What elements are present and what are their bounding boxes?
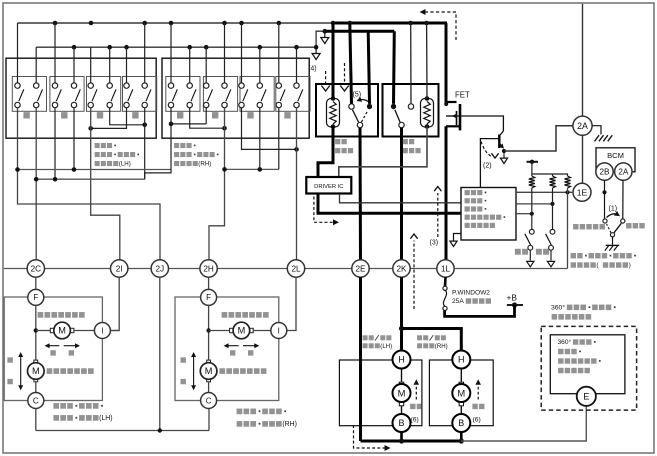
motor M2 RH up-down adjust — [200, 360, 217, 382]
label door lock link switch — [571, 253, 636, 269]
junction R2 — [550, 202, 554, 206]
connector F RH — [201, 289, 217, 305]
LH sub-switch box 左 — [87, 77, 121, 112]
svg-text:(LH): (LH) — [99, 415, 112, 422]
wire 2B to unlock contact — [604, 180, 606, 219]
label unlock — [573, 224, 605, 229]
junction RH up-L — [169, 122, 174, 127]
label up-down adjust motor RH — [219, 368, 266, 374]
wire bus to switch contact x=90.7 — [90, 47, 92, 83]
connector 2B BCM — [596, 163, 613, 180]
svg-text:B: B — [398, 418, 404, 428]
wire storage coil to DRIVER IC thick — [318, 127, 333, 178]
svg-text:M: M — [205, 366, 213, 376]
junction on bus1 x=426.6 — [424, 21, 429, 26]
return switch — [546, 188, 555, 267]
wire 2E down thick — [359, 277, 362, 441]
junction on bus2 x=259.8 — [258, 45, 263, 50]
door lock link switch — [603, 211, 625, 237]
LH sub-switch box 右 — [123, 77, 157, 112]
wire storage relay common to 2E thick — [359, 128, 363, 260]
svg-text:2B: 2B — [599, 167, 610, 176]
wire LH up-L output to node and 2J feed — [18, 108, 161, 260]
svg-text:(RH): (RH) — [435, 343, 448, 350]
junction on bus2 x=126.5 — [124, 45, 129, 50]
wire bus to switch contact x=55 — [54, 23, 56, 83]
RH sub-switch box 上 — [166, 77, 200, 112]
svg-text:BCM: BCM — [607, 151, 624, 160]
wire +B to fuse thick — [445, 305, 515, 316]
dashed continuation arrow bottom — [354, 425, 391, 451]
wire connector row — [4, 268, 568, 270]
switch label 上 — [177, 112, 183, 118]
mirror motor RH box — [175, 297, 279, 401]
svg-text:M: M — [457, 387, 465, 398]
wire M1 to I LH — [74, 330, 95, 332]
chassis ground at 2A — [592, 126, 612, 142]
wire fold motor rail thick — [361, 440, 462, 443]
wire M to B LH — [401, 406, 403, 414]
wire RH left-L to right-R — [242, 108, 297, 150]
wire bus to switch contact x=171 — [170, 23, 172, 83]
wire RH right-L output — [278, 108, 280, 170]
junction on mid-bus — [323, 29, 328, 34]
wire RH upL-downL tie — [171, 123, 206, 125]
resistor R2 — [550, 176, 556, 188]
switch contact pair x=259.8 — [257, 83, 266, 108]
switch contact pair x=189.7 — [187, 83, 196, 108]
svg-text:F: F — [206, 293, 211, 302]
label lock — [626, 223, 645, 228]
motor M2 LH up-down adjust — [28, 360, 45, 382]
junction on bus1 x=410.7 — [408, 21, 413, 26]
wire bus to switch contact x=74 — [73, 47, 75, 83]
switch contact pair x=55 — [52, 83, 61, 108]
switch label 下 — [212, 112, 218, 118]
wire 2K to H LH thick — [400, 277, 403, 351]
label 360 view monitor system — [551, 304, 616, 320]
svg-text:M: M — [238, 326, 246, 336]
connector H RH — [452, 351, 470, 369]
wire mid-bus corner to return relay NO contact thick — [392, 31, 396, 104]
wire line Ar — [225, 168, 279, 170]
svg-text:P.WINDOW2: P.WINDOW2 — [452, 290, 490, 297]
switch contact pair x=90.7 — [88, 83, 97, 108]
junction line Ar left-R — [258, 167, 263, 172]
connector E — [577, 387, 596, 406]
label up LH — [7, 357, 12, 362]
wire fold branch to H RH thick — [402, 329, 462, 351]
label return — [536, 249, 549, 255]
resistor R3 — [565, 176, 571, 188]
switch contact pair x=74 — [71, 83, 80, 108]
wire LH left-R to right-R — [110, 108, 145, 125]
DRIVER IC box — [306, 177, 351, 194]
wire bus2 thin — [36, 46, 316, 48]
label left-right adjust motor RH — [222, 312, 269, 318]
switch label 上 — [23, 112, 29, 118]
switch label 左 — [97, 112, 103, 118]
wire 2A BCM to lock contact — [622, 180, 624, 219]
wire bus to switch contact x=144.7 — [144, 23, 146, 83]
wire RH up-L/down-L net jog to line B — [145, 108, 171, 180]
wire RH down-R output through line Ar to 2H — [209, 108, 225, 260]
wire bus to switch contact x=189.7 — [189, 47, 191, 83]
wire module to R1 line — [516, 213, 532, 215]
label (3) — [430, 240, 439, 247]
wire bus to switch contact x=278.8 — [278, 23, 280, 83]
label up-down adjust motor LH — [47, 368, 94, 374]
wire RH down-L output — [205, 108, 207, 124]
junction on bus1 x=224.5 — [222, 21, 227, 26]
switch label 左 — [247, 112, 253, 118]
svg-text:(2): (2) — [483, 163, 492, 170]
wire M to B RH — [460, 406, 462, 414]
wire bus to switch contact x=241.5 — [241, 23, 243, 83]
junction on bus2 x=206.2 — [204, 45, 209, 50]
svg-text:E: E — [583, 392, 589, 402]
motor M1 LH left-right adjust — [50, 322, 74, 339]
connector I RH — [271, 323, 287, 339]
LH sub-switch box 下 — [50, 77, 84, 112]
module ground arrow — [450, 234, 461, 247]
junction on bus1 x=91 — [89, 21, 94, 26]
connector 1L — [437, 260, 454, 277]
wire LH down-R output — [73, 108, 75, 170]
fuse P.WINDOW2 25A — [443, 286, 447, 310]
svg-text:FET: FET — [455, 91, 470, 100]
arrow up-down LH — [18, 352, 23, 390]
svg-text:M: M — [32, 366, 40, 376]
junction RH down-R — [222, 126, 227, 131]
junction on bus2 x=189.7 — [187, 45, 192, 50]
connector C RH — [201, 393, 217, 409]
svg-text:(5): (5) — [353, 92, 362, 99]
arrows left right RH — [224, 343, 260, 355]
junction on bus2 x=316.1 — [314, 45, 319, 50]
svg-text:2A: 2A — [618, 167, 629, 176]
wire bus to switch contact x=109.7 — [109, 47, 111, 83]
label fold RH — [472, 404, 484, 424]
wire bus1 thin segment — [18, 22, 334, 24]
fold switch — [525, 188, 534, 267]
svg-text:(6): (6) — [473, 416, 481, 423]
wire bus to switch contact x=17.5 — [17, 23, 19, 83]
360 view monitor dashed box — [541, 326, 636, 410]
360 module label — [558, 338, 601, 373]
junction RH right-R — [294, 147, 299, 152]
mirror motor LH box — [4, 297, 102, 401]
svg-text:M: M — [398, 387, 406, 398]
360 view monitor control module box — [550, 335, 625, 394]
wire to M1 RH — [209, 330, 230, 332]
svg-text:DRIVER IC: DRIVER IC — [314, 184, 343, 190]
return relay switch — [391, 104, 414, 128]
connector H LH — [393, 351, 411, 369]
connector 2E — [352, 260, 369, 277]
wire line A — [18, 169, 172, 171]
junction on bus1 x=333 — [331, 21, 336, 26]
connector arrow below bus2 end — [312, 47, 320, 59]
terminal bar — [527, 160, 539, 164]
junction R3 on 1E line — [565, 190, 569, 194]
connector 2I — [111, 260, 128, 277]
svg-text:(1): (1) — [609, 206, 618, 213]
switch contact pair x=241.5 — [239, 83, 248, 108]
wire I LH to 2I stub — [110, 330, 119, 332]
wire LH up-R output to 2C — [35, 108, 37, 260]
svg-text:(6): (6) — [411, 416, 419, 423]
wire M1 to I RH — [253, 330, 271, 332]
svg-text:M: M — [58, 326, 66, 336]
svg-text:F: F — [33, 293, 38, 302]
dashed arrow from DRIVER IC — [314, 197, 339, 226]
wire LH down-L output — [54, 108, 56, 180]
svg-text:2K: 2K — [396, 264, 407, 273]
junction on bus1 x=278.8 — [277, 21, 282, 26]
connector B RH — [452, 414, 470, 432]
svg-text:360°: 360° — [558, 338, 572, 346]
wire bus1 to storage relay NC contact thick — [350, 23, 352, 104]
resistor R1 — [529, 176, 535, 188]
svg-text:2I: 2I — [116, 264, 123, 273]
connector 2H — [200, 260, 217, 277]
label power outer mirror motor RH — [237, 409, 297, 429]
switch contact pair x=36.2 — [34, 83, 43, 108]
connector B LH — [393, 414, 411, 432]
svg-text:C: C — [33, 396, 39, 405]
label up RH — [181, 357, 186, 362]
connector arrow below mid-bus junction — [321, 31, 329, 43]
label fold-return motor RH — [417, 335, 448, 350]
label +B — [507, 293, 518, 303]
junction line B 2C — [34, 177, 39, 182]
svg-text:): ) — [629, 262, 631, 269]
junction on bus1 x=144.7 — [142, 21, 147, 26]
connector 2J — [151, 260, 168, 277]
wire bus1 thick segment — [333, 22, 447, 25]
connector 1E — [573, 183, 591, 201]
wire 2H to F RH — [208, 277, 210, 289]
wire B LH to rail — [400, 432, 403, 441]
junction on bus2 x=109.7 — [107, 45, 112, 50]
power feed +B — [507, 302, 523, 307]
junction on bus1 x=55 — [53, 21, 58, 26]
wire R3 to row to 1L — [567, 188, 569, 269]
fold motor LH box — [339, 360, 422, 426]
junction line A up-L — [15, 167, 20, 172]
switch contact pair x=224.5 — [222, 83, 231, 108]
wire return coil to DRIVER IC — [339, 127, 427, 178]
switch contact pair x=144.7 — [142, 83, 151, 108]
junction fold branch — [399, 326, 404, 331]
wire DRIVER IC to module thick — [318, 194, 461, 213]
svg-text:B: B — [458, 418, 464, 428]
wire 2I to I LH — [110, 277, 119, 330]
motor M fold RH — [452, 382, 470, 406]
junction on bus1 x=349.8 — [348, 21, 353, 26]
label power outer mirror motor LH — [53, 403, 112, 422]
svg-text:2H: 2H — [203, 264, 214, 273]
wire C LH down — [35, 409, 37, 431]
wire bus2 riser and mid-bus — [316, 31, 325, 47]
label left-right adjust motor LH — [38, 312, 85, 318]
switch label 右 — [284, 112, 290, 118]
wire return relay common to 2K thick — [400, 128, 403, 260]
switch contact pair x=278.8 — [276, 83, 285, 108]
svg-text:(3): (3) — [430, 240, 439, 247]
BCM box — [596, 148, 635, 172]
junction line A down-R — [72, 167, 77, 172]
label (1) — [609, 206, 618, 213]
junction on bus2 x=74 — [72, 45, 77, 50]
junction on bus1 x=171 — [169, 21, 174, 26]
svg-text:1E: 1E — [577, 187, 588, 197]
svg-text:I: I — [101, 326, 103, 335]
label fold — [515, 249, 528, 255]
dashed arrow (4) into storage relay — [321, 71, 329, 91]
power outer mirror control module box — [461, 188, 516, 241]
wire bus to switch contact x=206.2 — [205, 47, 207, 83]
wire bus to switch contact x=296.5 — [296, 47, 298, 83]
label fold-return motor LH — [363, 335, 393, 350]
svg-text:+B: +B — [507, 293, 518, 303]
label FET — [455, 91, 470, 100]
wire LH mirror common to 2I — [91, 108, 120, 260]
fold motor RH box — [429, 360, 493, 426]
wire top border to 2A — [582, 4, 584, 116]
dashed continuation arrow top right — [420, 9, 457, 40]
LH sub-switch box 上 — [12, 77, 46, 112]
wire 2A to 1E — [582, 135, 584, 183]
svg-text:2C: 2C — [31, 264, 42, 273]
switch label 下 — [61, 112, 67, 118]
svg-text:(LH): (LH) — [119, 161, 131, 168]
storage relay box — [316, 84, 378, 137]
connector C LH — [28, 393, 44, 409]
label (2) — [483, 163, 492, 170]
storage relay coil — [327, 96, 340, 129]
wire bus to switch contact x=36.2 — [35, 47, 37, 83]
svg-text:2E: 2E — [355, 264, 366, 273]
svg-text:360°: 360° — [551, 304, 565, 312]
wire Q1 emitter to 2A — [504, 126, 573, 151]
label return relay — [403, 139, 421, 153]
power outer mirror switch LH outline — [6, 58, 156, 138]
wire H to M LH — [401, 369, 403, 383]
svg-text:1L: 1L — [441, 264, 451, 273]
switch contact pair x=126.5 — [124, 83, 133, 108]
transistor Q1 — [499, 131, 506, 150]
module label text — [465, 190, 506, 228]
wire FET source to 1L thick — [445, 126, 448, 259]
wire mid-bus thick segment — [325, 30, 395, 33]
svg-text:2L: 2L — [291, 264, 301, 273]
svg-text:(LH): (LH) — [380, 343, 392, 350]
dashed arrow fold LH — [414, 379, 420, 399]
wire mirror motor rail — [36, 430, 209, 432]
label power outer mirror switch RH — [174, 143, 218, 168]
power outer mirror switch RH outline — [162, 58, 309, 138]
svg-text:H: H — [458, 355, 465, 365]
label fold LH — [410, 404, 422, 424]
wire RH left-R output — [259, 108, 261, 170]
wire mid-bus to storage relay NO contact thick — [368, 31, 369, 104]
wire F to C LH — [35, 305, 37, 392]
wire resistor rail — [532, 174, 568, 176]
wire B RH to rail — [460, 432, 463, 441]
return relay coil — [421, 96, 434, 129]
junction left-L — [88, 126, 93, 131]
switch contact pair x=17.5 — [15, 83, 24, 108]
label fuse — [452, 290, 491, 306]
wire Q1 base to module — [480, 139, 499, 188]
FET symbol — [444, 102, 503, 131]
wire DRIVER IC to module thin — [340, 194, 462, 203]
RH sub-switch box 左 — [240, 77, 274, 112]
wire 1L to fuse — [444, 277, 447, 286]
wire bus to switch contact x=224.5 — [224, 23, 226, 83]
label storage relay — [335, 139, 353, 153]
connector 2K — [393, 260, 410, 277]
svg-text:2A: 2A — [577, 121, 588, 131]
wire 2J down to motor rail — [159, 277, 161, 430]
label power outer mirror switch LH — [95, 143, 139, 168]
svg-text:(RH): (RH) — [282, 421, 297, 428]
connector 2L — [287, 260, 304, 277]
label down LH — [7, 379, 12, 384]
motor M fold LH — [393, 382, 411, 406]
ground door lock switch — [605, 237, 619, 251]
wire FET gate from transistor — [0, 0, 1, 1]
wire H to M RH — [460, 369, 462, 383]
label (5) — [353, 92, 362, 99]
wire module to R2 line — [516, 203, 553, 205]
wire bus1 to return relay coil — [426, 23, 428, 99]
junction M1 LH — [34, 328, 38, 332]
connector arrow below Q1 — [500, 151, 507, 164]
label down RH — [181, 379, 186, 384]
wire 2L to I RH — [287, 277, 296, 330]
junction 2J on motor rail — [158, 428, 162, 432]
svg-text:(RH): (RH) — [198, 161, 211, 168]
connector F LH — [28, 289, 44, 305]
switch contact pair x=109.7 — [107, 83, 116, 108]
RH sub-switch box 右 — [276, 77, 310, 112]
switch label 右 — [132, 112, 138, 118]
connector 2A BCM — [615, 163, 632, 180]
junction on bus2 x=296.5 — [294, 45, 299, 50]
wire 2C to F LH — [35, 277, 37, 289]
dashed arrow fold RH — [475, 379, 481, 399]
wire bus1 to storage relay coil thick — [332, 23, 335, 99]
arrow up-down RH — [191, 352, 196, 390]
dashed arrow mid vertical — [410, 234, 417, 309]
wire RH right-R output to 2L — [296, 108, 298, 260]
junction R1 — [530, 212, 534, 216]
svg-text:H: H — [398, 355, 405, 365]
wire rail to E — [461, 407, 586, 442]
wire F to C RH — [208, 305, 210, 392]
dashed arrow (2) — [481, 142, 499, 159]
junction line Ar down-R — [222, 167, 227, 172]
wire LH right-R output to line B — [144, 108, 146, 180]
wire line B — [36, 178, 145, 180]
switch contact pair x=296.5 — [294, 83, 303, 108]
wire bus1 to FET drain thick — [445, 23, 448, 103]
connector 2C — [27, 260, 44, 277]
svg-text:C: C — [206, 396, 212, 405]
